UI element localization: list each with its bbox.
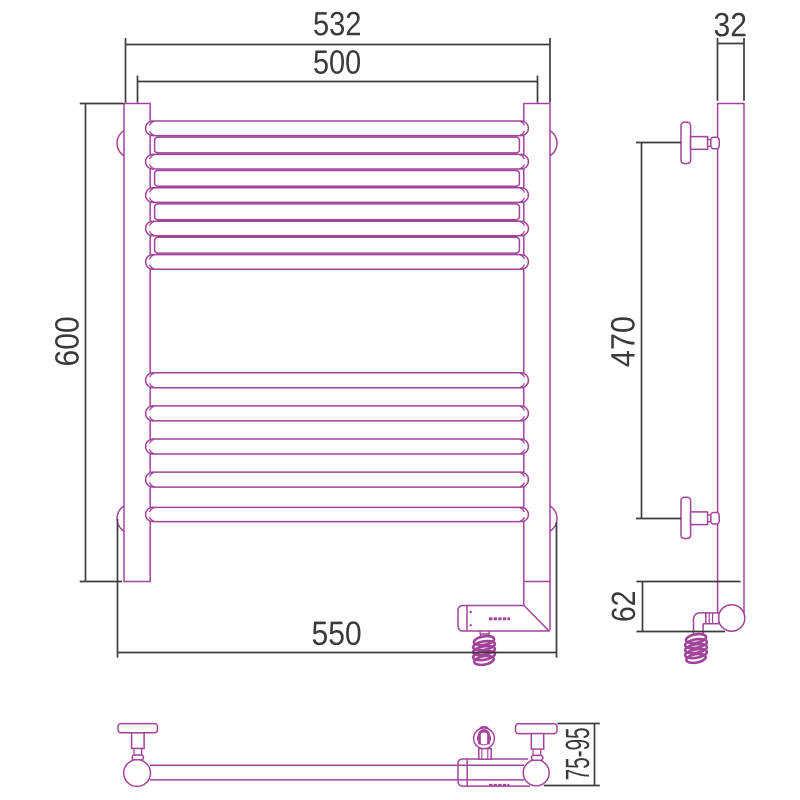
side bracket top: collet bbox=[708, 140, 711, 147]
bottom group long rungs bbox=[146, 373, 529, 522]
left circle (post from below) bbox=[124, 760, 151, 787]
rung long 2 bbox=[146, 154, 529, 169]
rung long 7 bbox=[146, 406, 529, 421]
cable gland neck bbox=[479, 749, 491, 760]
dim text 500 bbox=[314, 50, 360, 74]
bottom right bracket stem bbox=[531, 734, 543, 750]
rung long 5 bbox=[146, 255, 529, 270]
side elbow tube bbox=[694, 613, 706, 634]
dim text 550 bbox=[313, 621, 361, 645]
rung long 6 bbox=[146, 373, 529, 388]
bottom left bracket plate bbox=[118, 724, 158, 733]
bottom box bbox=[458, 759, 530, 786]
rung short 2 bbox=[155, 171, 520, 187]
right circle (post from below) bbox=[523, 760, 549, 786]
side bracket top: wall plate bbox=[681, 122, 691, 163]
dim text 470 bbox=[611, 317, 635, 366]
rung long 4 bbox=[146, 221, 529, 236]
electric box front bbox=[458, 606, 550, 632]
cable coil side bbox=[684, 633, 707, 665]
top group short rungs bbox=[155, 137, 520, 253]
dim 470 line bbox=[641, 143, 643, 519]
dim text 600 bbox=[55, 318, 79, 365]
rung long 3 bbox=[146, 188, 529, 203]
cable gland circle bbox=[474, 728, 495, 749]
bottom tube lines bbox=[150, 765, 524, 780]
side connector bbox=[706, 613, 719, 624]
right post bbox=[524, 104, 550, 582]
electric box seam bbox=[466, 606, 468, 632]
electric box diagonal bbox=[524, 606, 549, 631]
cable gland U bbox=[480, 731, 489, 745]
rung long 9 bbox=[146, 472, 529, 487]
dim 600 line bbox=[85, 104, 87, 582]
rung long 8 bbox=[146, 439, 529, 454]
dim 75-95 line bbox=[594, 724, 596, 786]
rung long bottom collector bbox=[146, 507, 529, 521]
rung short 1 bbox=[155, 137, 520, 153]
left post bbox=[124, 104, 150, 582]
side bracket bottom: stem bbox=[691, 512, 708, 525]
cable coil front bbox=[472, 635, 495, 667]
dim text 62 bbox=[612, 592, 636, 621]
wall bracket circle top-left bbox=[117, 128, 147, 158]
rung short 3 bbox=[155, 204, 520, 220]
bottom right bracket collet bbox=[533, 749, 541, 755]
rung short 4 bbox=[155, 237, 520, 253]
side post bbox=[718, 104, 744, 615]
bottom left bracket stem bbox=[132, 733, 145, 749]
dim 62 line bbox=[642, 582, 644, 632]
wall bracket circle bottom-right bbox=[527, 504, 557, 534]
cable neck front bbox=[480, 631, 490, 637]
rung long 1 bbox=[146, 121, 529, 136]
vent dashes bbox=[489, 617, 510, 620]
bottom left bracket knob bbox=[132, 755, 143, 760]
dim 532 line bbox=[126, 44, 551, 46]
side bracket bottom: knob bbox=[711, 513, 719, 525]
rung weld fillets bbox=[150, 121, 525, 521]
dim 500 line bbox=[138, 81, 538, 83]
wall bracket circle bottom-left bbox=[117, 504, 147, 534]
side bracket top: stem bbox=[691, 137, 708, 150]
bottom box seam bbox=[466, 759, 468, 786]
side electric circle bbox=[718, 605, 744, 631]
side bracket bottom: wall plate bbox=[681, 497, 691, 538]
side bracket bottom: collet bbox=[708, 515, 711, 522]
side bracket top: knob bbox=[711, 137, 719, 149]
cable gland top tab bbox=[480, 727, 489, 729]
bottom left bracket collet bbox=[134, 749, 142, 756]
bottom right bracket knob bbox=[532, 755, 543, 760]
top group long rungs bbox=[146, 121, 529, 269]
bottom vent dashes bbox=[489, 784, 510, 787]
dim text 75-95 bbox=[566, 728, 590, 779]
dim text 532 bbox=[314, 12, 360, 36]
dim text 32 bbox=[715, 13, 746, 37]
dim 550 line bbox=[118, 652, 557, 654]
indicator dot 1 bbox=[470, 611, 472, 613]
dim 32 line bbox=[718, 43, 745, 45]
wall bracket circle top-right bbox=[527, 128, 557, 158]
bottom right bracket plate bbox=[516, 724, 558, 734]
indicator dot 2 bbox=[470, 624, 472, 626]
right post lower extension bbox=[524, 582, 550, 631]
